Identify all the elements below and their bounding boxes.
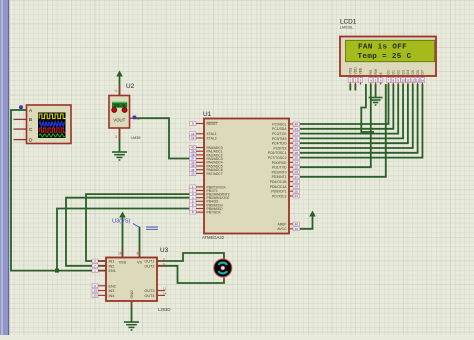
- svg-text:32: 32: [295, 222, 299, 226]
- svg-text:IN4: IN4: [109, 294, 115, 298]
- svg-text:D2: D2: [396, 70, 400, 74]
- svg-text:PC3/TMS: PC3/TMS: [272, 137, 287, 141]
- net label U3(VS): [112, 219, 158, 230]
- svg-text:FAN is OFF: FAN is OFF: [358, 44, 407, 52]
- junction EN1 net: [55, 269, 59, 273]
- svg-text:24: 24: [295, 132, 299, 136]
- wire U3 OUT2 to fan -: [157, 266, 224, 283]
- wire LCD E to U1 PD3: [300, 84, 386, 177]
- svg-text:D5: D5: [411, 70, 415, 74]
- svg-text:12: 12: [411, 79, 415, 83]
- svg-text:U2: U2: [126, 83, 135, 90]
- svg-text:AREF: AREF: [277, 222, 286, 226]
- microcontroller U1 ATMEGA32: [190, 119, 300, 234]
- editor edge bar: [0, 0, 9, 335]
- svg-text:26: 26: [295, 141, 299, 145]
- wire LCD D6 to U1 PC6: [300, 84, 418, 153]
- svg-text:17: 17: [295, 175, 299, 179]
- svg-text:LCD1: LCD1: [340, 19, 357, 26]
- wire LM35 pin3 to ground: [119, 128, 121, 152]
- svg-text:23: 23: [295, 127, 299, 131]
- svg-text:2: 2: [138, 117, 140, 121]
- svg-text:PB7/SCK: PB7/SCK: [207, 211, 222, 215]
- power +V arrow (U3 VSS): [119, 212, 126, 258]
- svg-text:XTAL2: XTAL2: [207, 136, 217, 140]
- svg-text:U1: U1: [203, 111, 212, 118]
- wire LCD VSS stub: [349, 84, 351, 91]
- wire LCD VEE stub: [361, 84, 374, 132]
- ground (U3): [124, 322, 139, 330]
- svg-text:LM016L: LM016L: [340, 26, 353, 30]
- svg-text:PD4/OC1B: PD4/OC1B: [270, 180, 288, 184]
- svg-text:PC1/SDA: PC1/SDA: [272, 127, 287, 131]
- wire U3 OUT1 to fan +: [157, 253, 224, 261]
- wire LM35 VOUT to U1 PA3: [134, 118, 191, 158]
- svg-text:22: 22: [295, 122, 299, 126]
- svg-text:GND: GND: [130, 290, 134, 299]
- svg-text:D4: D4: [406, 70, 410, 74]
- svg-text:PD3/INT1: PD3/INT1: [272, 175, 287, 179]
- wire LCD D1 to U1 PC1: [300, 84, 393, 129]
- svg-text:D3: D3: [401, 70, 405, 74]
- svg-text:20: 20: [295, 189, 299, 193]
- svg-text:PD1/TXD: PD1/TXD: [272, 166, 287, 170]
- svg-text:1: 1: [115, 89, 117, 93]
- svg-text:VEE: VEE: [359, 67, 363, 75]
- svg-text:28: 28: [295, 151, 299, 155]
- svg-text:PD6/ICP1: PD6/ICP1: [271, 190, 286, 194]
- svg-text:VDD: VDD: [354, 67, 358, 75]
- ground (LCD RW): [369, 98, 383, 106]
- svg-text:EN2: EN2: [109, 284, 116, 288]
- wire LCD D3 to U1 PC3: [300, 84, 403, 138]
- svg-text:D: D: [29, 137, 33, 143]
- LCD display LCD1 LM016L: [340, 37, 436, 85]
- svg-text:16: 16: [118, 252, 122, 256]
- wire U1 PB3 to U3 IN2: [66, 198, 191, 266]
- svg-text:ATMEGA32: ATMEGA32: [202, 235, 225, 240]
- svg-text:10: 10: [401, 79, 405, 83]
- svg-text:D0: D0: [387, 70, 391, 74]
- wire U3 VS net: [139, 227, 141, 258]
- svg-text:LM35: LM35: [131, 136, 141, 140]
- svg-text:PA7/ADC7: PA7/ADC7: [207, 172, 223, 176]
- svg-text:13: 13: [416, 79, 420, 83]
- svg-text:PC4/TDO: PC4/TDO: [272, 142, 287, 146]
- wire LCD RW to ground: [375, 84, 377, 97]
- svg-text:PC5/TDI: PC5/TDI: [274, 146, 287, 150]
- node LM35 VOUT: [133, 116, 137, 120]
- svg-text:L293D: L293D: [158, 307, 170, 312]
- svg-text:PC0/SCL: PC0/SCL: [272, 122, 286, 126]
- svg-text:RS: RS: [369, 69, 373, 74]
- node scope input A: [19, 105, 23, 109]
- svg-text:19: 19: [295, 185, 299, 189]
- svg-text:3: 3: [115, 135, 117, 139]
- svg-text:VSS: VSS: [119, 261, 127, 265]
- svg-text:D6: D6: [416, 70, 420, 74]
- svg-text:RW: RW: [374, 68, 378, 74]
- svg-text:11: 11: [163, 287, 166, 291]
- ground (LM35): [112, 152, 127, 160]
- svg-text:U3(VS): U3(VS): [112, 219, 130, 225]
- wire oscilloscope channel A down to EN1 net: [11, 110, 57, 271]
- svg-text:11: 11: [406, 79, 409, 83]
- motor driver U3 L293D: [92, 250, 167, 308]
- wire U3 GND to ground: [131, 301, 133, 322]
- svg-text:18: 18: [295, 180, 299, 184]
- svg-text:B: B: [29, 117, 32, 123]
- svg-text:D7: D7: [421, 70, 425, 74]
- svg-text:27: 27: [295, 146, 299, 150]
- svg-text:VSS: VSS: [349, 67, 353, 75]
- svg-text:EN1: EN1: [109, 269, 116, 273]
- svg-text:14: 14: [163, 291, 167, 295]
- wire LCD D5 to U1 PC5: [300, 84, 413, 148]
- svg-text:U3: U3: [160, 247, 169, 254]
- svg-text:33: 33: [191, 172, 195, 176]
- svg-text:12: 12: [191, 136, 195, 140]
- svg-text:8: 8: [137, 252, 139, 256]
- svg-text:PC6/TOSC1: PC6/TOSC1: [268, 151, 287, 155]
- wire LCD VDD stub: [354, 84, 356, 91]
- svg-text:10: 10: [93, 289, 97, 293]
- svg-text:VS: VS: [137, 261, 143, 265]
- wire LCD RS to U1 PD1: [300, 84, 371, 167]
- svg-text:VOUT: VOUT: [113, 118, 125, 123]
- svg-text:IN1: IN1: [109, 260, 115, 264]
- svg-text:21: 21: [295, 194, 299, 198]
- svg-text:OUT4: OUT4: [144, 294, 154, 298]
- power +V arrow (LM35): [116, 71, 123, 96]
- svg-text:OUT2: OUT2: [144, 264, 154, 268]
- svg-text:RESET: RESET: [207, 122, 218, 126]
- svg-text:PC7/TOSC2: PC7/TOSC2: [268, 156, 287, 160]
- svg-text:30: 30: [295, 227, 299, 231]
- svg-text:14: 14: [295, 161, 299, 165]
- wire LCD D0 to U1 PC0: [300, 84, 389, 124]
- svg-text:PC2/TCK: PC2/TCK: [272, 132, 287, 136]
- svg-text:PD5/OC1A: PD5/OC1A: [270, 185, 288, 189]
- wire LCD D7 to U1 PC7: [300, 84, 422, 158]
- svg-text:16: 16: [295, 170, 299, 174]
- temperature sensor U2 LM35: [109, 84, 140, 140]
- oscilloscope: [14, 105, 72, 144]
- svg-text:25: 25: [295, 137, 299, 141]
- svg-text:29: 29: [295, 156, 299, 160]
- wire U1 PB2 to U3 IN1: [86, 194, 191, 261]
- svg-text:15: 15: [93, 294, 97, 298]
- svg-text:OUT1: OUT1: [144, 260, 154, 264]
- svg-text:AVCC: AVCC: [277, 227, 287, 231]
- svg-text:15: 15: [295, 165, 299, 169]
- svg-text:PD0/RXD: PD0/RXD: [272, 161, 287, 165]
- fan motor: [214, 257, 232, 282]
- svg-text:IN2: IN2: [109, 264, 115, 268]
- wire U1 PB6 to U3 EN1: [57, 209, 191, 271]
- wire LCD D2 to U1 PC2: [300, 84, 398, 134]
- svg-text:OUT3: OUT3: [144, 289, 154, 293]
- svg-text:PD2/INT0: PD2/INT0: [272, 170, 287, 174]
- svg-text:D1: D1: [392, 70, 396, 74]
- wire LCD D4 to U1 PC4: [300, 84, 408, 143]
- power +V arrow (U1 AVCC): [300, 211, 316, 229]
- svg-text:IN3: IN3: [109, 289, 115, 293]
- svg-text:PD7/OC2: PD7/OC2: [272, 194, 287, 198]
- svg-text:Temp = 25 C: Temp = 25 C: [358, 53, 412, 61]
- svg-text:14: 14: [421, 79, 425, 83]
- svg-text:C: C: [29, 127, 33, 133]
